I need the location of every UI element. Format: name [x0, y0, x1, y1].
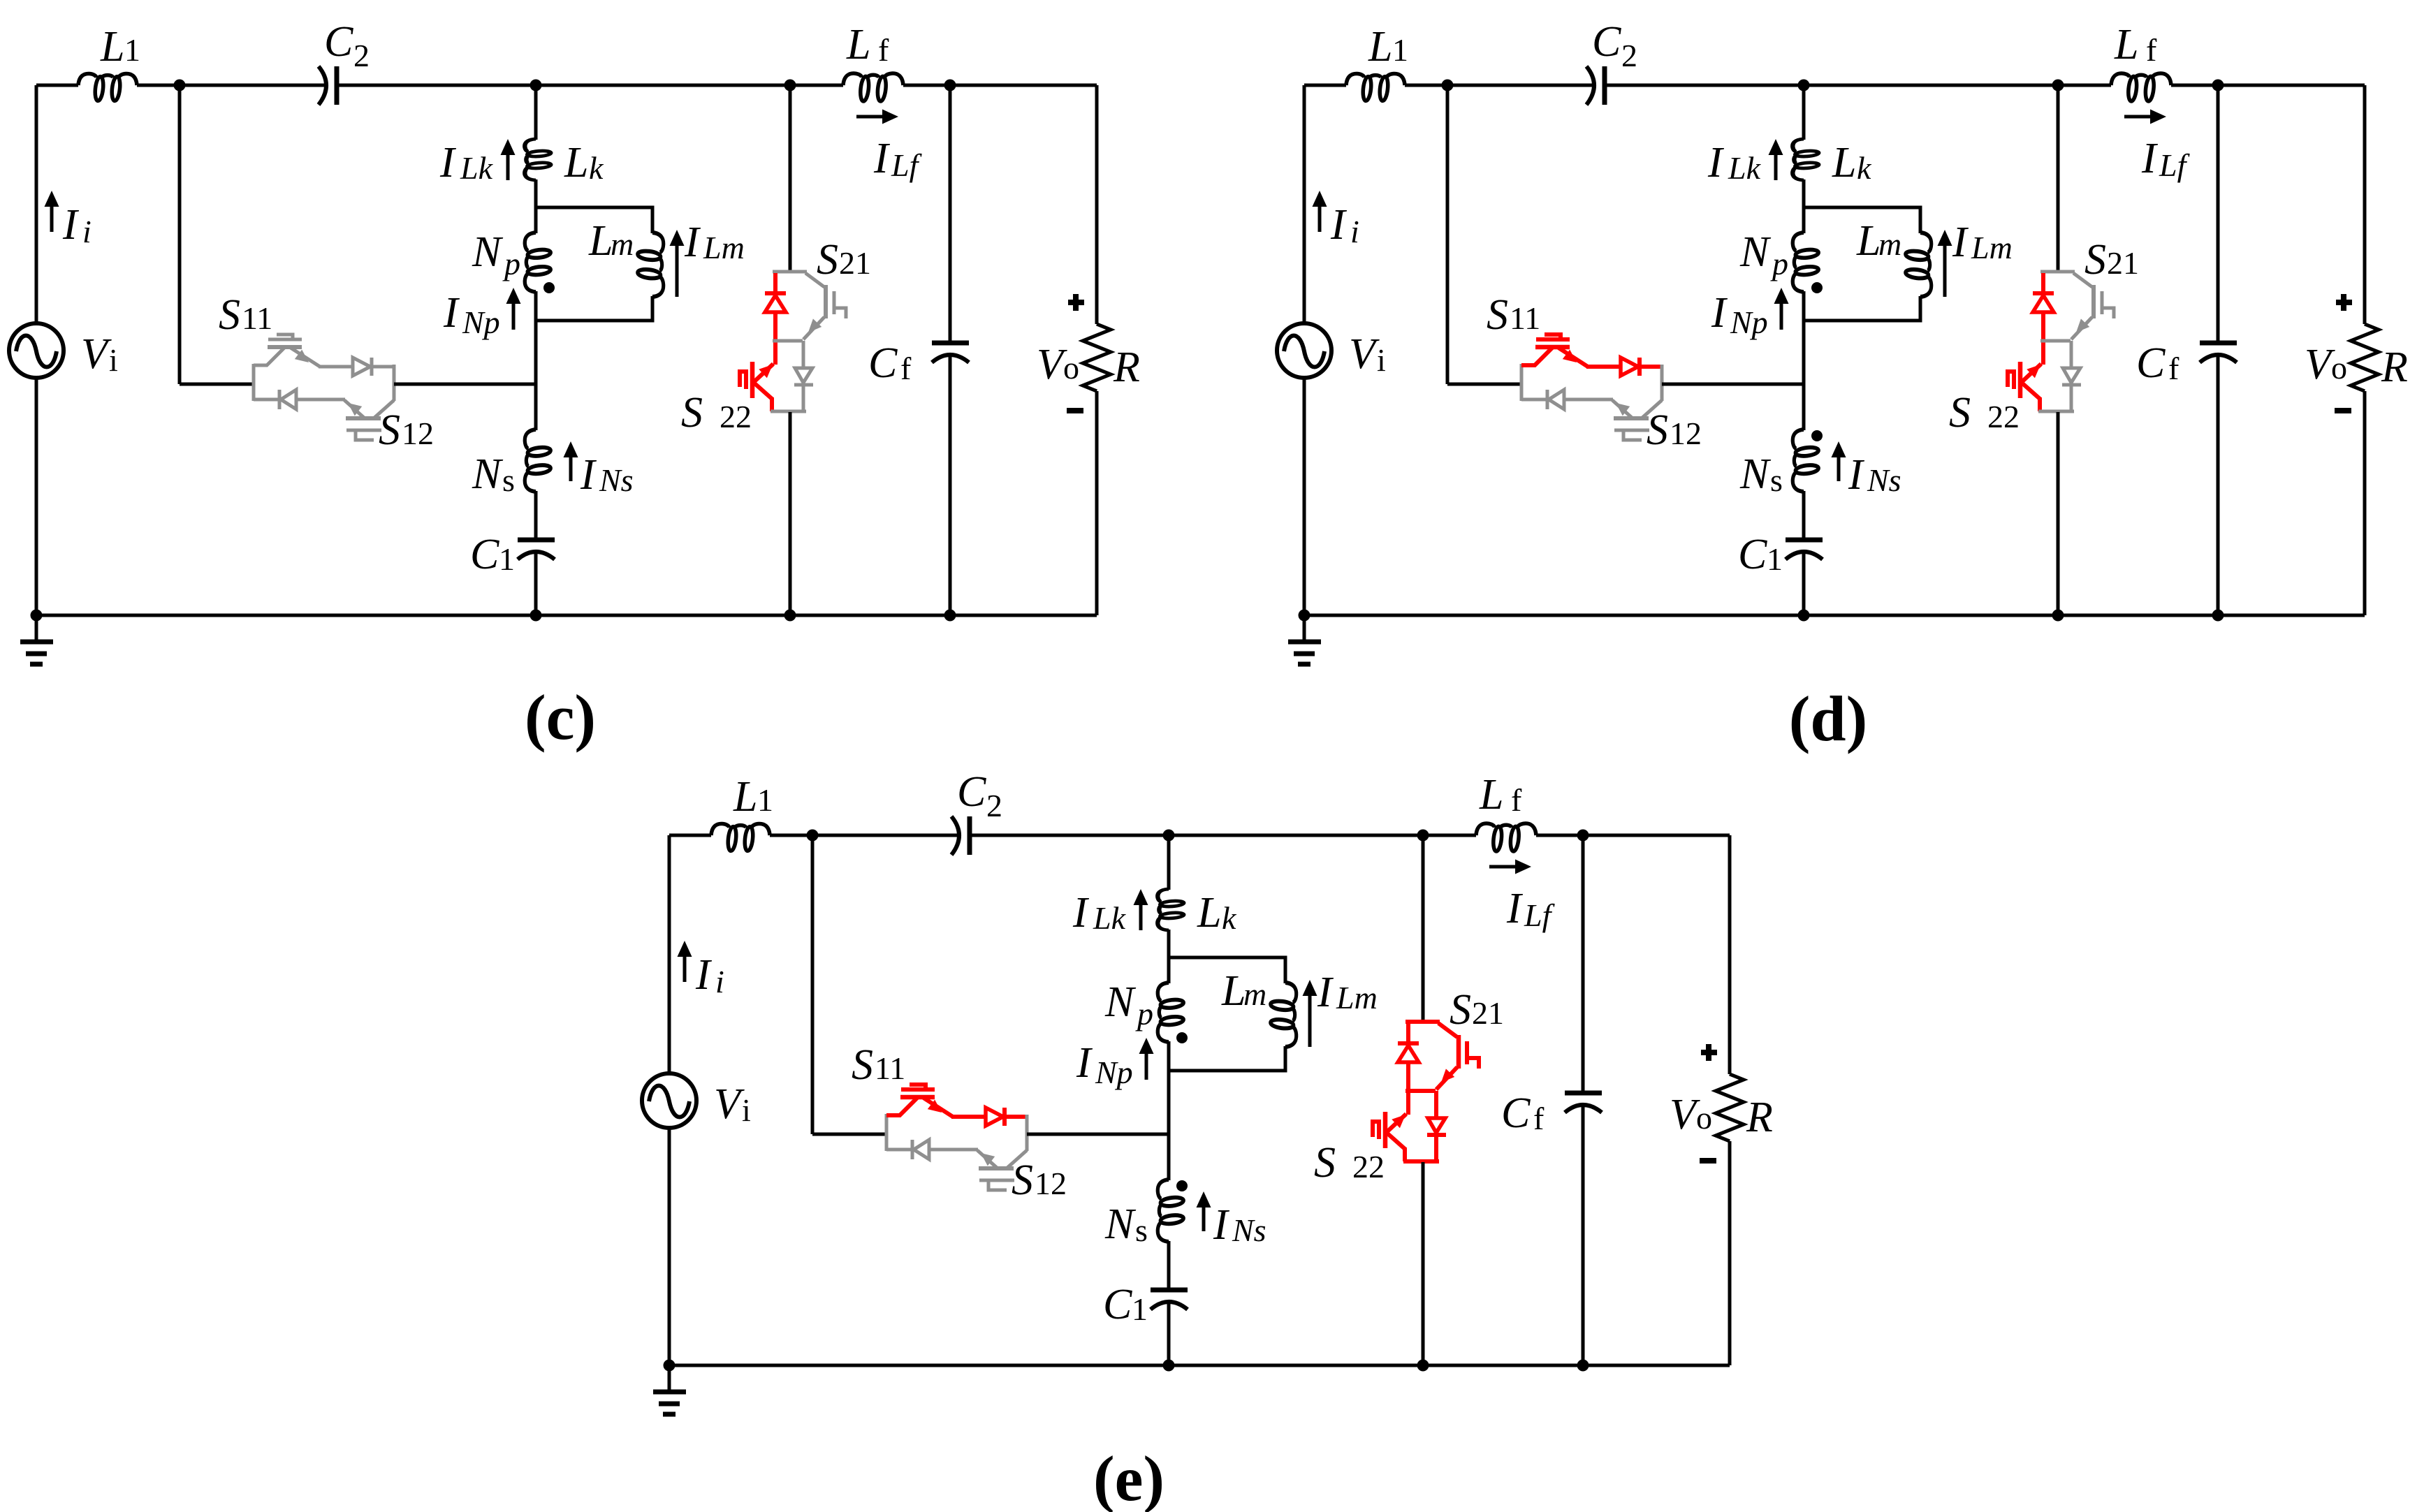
wire Cf branch upper (e)	[1582, 835, 1585, 1094]
svg-text:f: f	[2146, 32, 2157, 68]
svg-text:1: 1	[1392, 32, 1408, 68]
node L1-C2 junction (d)	[1442, 80, 1454, 91]
transistor S22 emitter (d)	[2021, 382, 2040, 399]
inductor Ns (e)	[1158, 1180, 1184, 1242]
svg-text:I: I	[1711, 289, 1728, 337]
node S21 top junction (e)	[1417, 830, 1429, 842]
arrow INp (e)	[1145, 1051, 1148, 1080]
wire S22 bottom bar (c)	[771, 410, 806, 413]
svg-text:22: 22	[1352, 1149, 1385, 1184]
svg-text:I: I	[1317, 969, 1334, 1016]
inductor Lk (d)	[1793, 139, 1819, 180]
transistor S22 gate (d)	[2012, 369, 2016, 389]
svg-text:m: m	[1878, 226, 1901, 262]
node transformer bottom junction (c)	[530, 610, 542, 622]
transistor S21 gate lead (d)	[2102, 308, 2114, 318]
svg-text:I: I	[580, 451, 597, 499]
transistor S11 body (c)	[268, 345, 302, 349]
capacitor C2 (c)	[319, 66, 326, 105]
transistor S22 gate (e)	[1377, 1120, 1381, 1139]
transistor S11 gate (c)	[268, 338, 302, 342]
svg-text:i: i	[715, 964, 724, 999]
wire S12 output (c)	[394, 383, 536, 386]
svg-text:I: I	[62, 201, 80, 249]
svg-text:Np: Np	[1730, 304, 1768, 340]
svg-text:C: C	[868, 339, 898, 387]
svg-text:1: 1	[499, 541, 515, 577]
svg-text:22: 22	[720, 399, 752, 434]
node Np polarity dot (e)	[1176, 1032, 1188, 1043]
svg-text:Lf: Lf	[1524, 897, 1556, 933]
wire top bus (d)	[1304, 84, 1346, 87]
transistor S22 body (e)	[1383, 1112, 1388, 1148]
wire D22-bottom (e)	[1434, 1136, 1438, 1161]
inductor Np (c)	[525, 233, 551, 292]
svg-text:o: o	[1063, 350, 1079, 386]
svg-text:I: I	[1072, 889, 1090, 937]
svg-text:1: 1	[124, 32, 140, 68]
inductor Lk (e)	[1158, 889, 1184, 930]
node transformer top junction (e)	[1163, 830, 1175, 842]
label minus (e)	[1700, 1158, 1716, 1164]
svg-text:2: 2	[353, 38, 370, 73]
svg-text:Np: Np	[1095, 1055, 1133, 1090]
transistor S22 gate (c)	[744, 369, 748, 389]
svg-text:C: C	[324, 18, 353, 66]
node Cf top junction (c)	[944, 80, 956, 91]
wire Lk-Np (e)	[1167, 930, 1171, 983]
transistor S22 gate lead (c)	[740, 372, 746, 387]
wire S22 bottom bar (e)	[1403, 1159, 1439, 1164]
arrow ILk (d)	[1774, 152, 1778, 180]
capacitor Cf (d)	[2200, 341, 2237, 346]
svg-text:Ns: Ns	[1232, 1212, 1266, 1248]
wire Lk-Np (c)	[534, 179, 538, 233]
diode D11 (d)	[1621, 358, 1638, 376]
svg-text:N: N	[1104, 1201, 1137, 1248]
svg-text:L: L	[1479, 771, 1503, 819]
node ground junction (e)	[664, 1360, 676, 1372]
svg-text:s: s	[502, 462, 515, 498]
svg-text:21: 21	[1472, 995, 1504, 1031]
wire D21 anode stub (c)	[773, 273, 777, 294]
svg-text:I: I	[873, 135, 891, 182]
arrow Ii (c)	[50, 204, 54, 232]
wire top bus Lf-R (e)	[1536, 834, 1730, 837]
svg-text:Np: Np	[462, 304, 500, 340]
transistor S21 gate (d)	[2101, 291, 2104, 314]
node Ns polarity dot (d)	[1811, 430, 1823, 441]
wire switch right vertical (e)	[1025, 1115, 1029, 1151]
svg-text:21: 21	[839, 245, 871, 281]
svg-text:p: p	[502, 246, 520, 281]
node L1-C2 junction (c)	[174, 80, 186, 91]
svg-text:m: m	[611, 226, 634, 262]
inductor Lf (d)	[2111, 73, 2171, 101]
arrow ILf (d)	[2124, 115, 2153, 119]
svg-text:I: I	[1330, 201, 1348, 249]
svg-text:I: I	[1076, 1039, 1093, 1087]
capacitor C2 (e)	[951, 816, 959, 855]
wire S11 input (c)	[180, 383, 254, 386]
svg-text:i: i	[742, 1092, 751, 1128]
svg-text:C: C	[1501, 1089, 1531, 1137]
svg-text:m: m	[1243, 976, 1266, 1012]
svg-text:p: p	[1770, 246, 1788, 281]
node Cf bottom junction (d)	[2212, 610, 2224, 622]
svg-text:i: i	[1350, 214, 1359, 249]
label minus (d)	[2335, 408, 2351, 413]
wire top bus Lf-R (c)	[903, 84, 1097, 87]
inductor Np (e)	[1158, 983, 1184, 1042]
node Cf bottom junction (e)	[1577, 1360, 1589, 1372]
arrow Ii (d)	[1318, 204, 1322, 232]
transistor S12 body (d)	[1614, 416, 1649, 420]
wire C2 branch vertical (d)	[1446, 85, 1450, 384]
transistor S12 emitter (c)	[344, 400, 364, 418]
wire C2 branch vertical (e)	[811, 835, 815, 1134]
diode D12 (d)	[1546, 390, 1549, 409]
transistor S12 gate lead (c)	[356, 431, 374, 440]
svg-text:S: S	[1314, 1139, 1336, 1187]
node S21 top junction (d)	[2052, 80, 2064, 91]
svg-text:f: f	[878, 32, 889, 68]
transistor S12 collector (c)	[374, 400, 394, 418]
diode D21 (c)	[765, 291, 786, 295]
svg-text:o: o	[2331, 350, 2347, 386]
transistor S22 gate lead (d)	[2008, 372, 2014, 387]
wire D12 in (e)	[886, 1148, 912, 1152]
transistor S21 collector (c)	[805, 273, 824, 287]
arrow INs (c)	[569, 455, 573, 481]
wire left vertical lower (e)	[668, 1127, 671, 1365]
inductor L1 (d)	[1346, 73, 1405, 101]
svg-text:V: V	[1349, 330, 1380, 378]
svg-text:f: f	[900, 351, 912, 386]
wire D21 anode stub (e)	[1406, 1023, 1410, 1044]
transistor S21 gate (e)	[1465, 1041, 1469, 1064]
diode D21 (e)	[1398, 1041, 1419, 1045]
svg-text:21: 21	[2107, 245, 2139, 281]
transistor S12 gate (c)	[346, 429, 381, 432]
source Vi (e)	[642, 1073, 696, 1128]
transistor S12 emitter (e)	[977, 1150, 997, 1168]
svg-text:L: L	[588, 217, 613, 265]
svg-text:S: S	[1647, 406, 1668, 454]
capacitor Cf (e)	[1565, 1091, 1602, 1096]
inductor Lf (e)	[1476, 823, 1536, 851]
svg-text:f: f	[1511, 782, 1522, 818]
wire Cf branch lower (c)	[949, 353, 952, 615]
wire Cf branch upper (c)	[949, 85, 952, 344]
transistor S11 collector (d)	[1534, 348, 1552, 366]
transistor S21 emitter (e)	[1436, 1067, 1457, 1089]
svg-text:L: L	[1197, 889, 1221, 937]
transistor S11 gate lead (d)	[1545, 335, 1561, 338]
wire switch left vertical (c)	[252, 364, 256, 401]
diode D12 (c)	[278, 390, 282, 409]
svg-text:S: S	[1012, 1157, 1033, 1204]
wire switch top-left stub (e)	[886, 1113, 900, 1117]
svg-text:Lm: Lm	[703, 230, 745, 265]
transistor S21 collector (e)	[1438, 1023, 1457, 1037]
wire left vertical lower (c)	[35, 377, 38, 615]
wire D21-S22 (c)	[773, 311, 777, 365]
wire S21 top bar (d)	[2040, 270, 2075, 274]
wire Ns-C1 (e)	[1167, 1241, 1171, 1288]
wire S21 branch lower (d)	[2057, 412, 2060, 615]
wire D12-S12 (e)	[929, 1148, 978, 1152]
wire top bus C2-Lf (c)	[339, 84, 843, 87]
svg-text:11: 11	[875, 1050, 905, 1086]
arrow ILf (e)	[1489, 865, 1518, 869]
wire S21 mid bar (e)	[1406, 1089, 1436, 1093]
wire D12 in (d)	[1521, 398, 1547, 402]
capacitor C1 (c)	[518, 538, 555, 543]
label plus (c)	[1068, 300, 1084, 305]
transistor S11 body (d)	[1535, 345, 1570, 350]
svg-text:I: I	[2141, 135, 2159, 182]
wire transformer top (e)	[1167, 835, 1171, 890]
svg-text:S: S	[852, 1041, 873, 1089]
node Np polarity dot (d)	[1811, 282, 1823, 293]
wire top bus C2-Lf (e)	[972, 834, 1476, 837]
wire Ns-C1 (c)	[534, 491, 538, 538]
wire D22-bottom (c)	[802, 386, 805, 411]
svg-text:S: S	[379, 406, 400, 454]
node S21 bottom junction (d)	[2052, 610, 2064, 622]
wire S12 output (e)	[1027, 1133, 1169, 1136]
transistor S21 emitter (c)	[803, 317, 824, 339]
ground (d)	[1303, 615, 1306, 641]
svg-text:Lk: Lk	[1093, 900, 1127, 936]
svg-text:i: i	[1377, 342, 1386, 378]
svg-text:N: N	[1739, 450, 1772, 498]
wire Cf branch lower (e)	[1582, 1103, 1585, 1365]
svg-text:p: p	[1135, 996, 1153, 1032]
wire Np-Ns (e)	[1167, 1041, 1171, 1180]
transistor S22 gate lead (e)	[1373, 1122, 1379, 1137]
svg-text:f: f	[2168, 351, 2180, 386]
node ground junction (c)	[31, 610, 43, 622]
inductor L1 (c)	[78, 73, 137, 101]
wire D11 out (e)	[1005, 1115, 1028, 1119]
wire D12 in (c)	[254, 398, 279, 402]
transistor S11 collector (e)	[899, 1098, 917, 1116]
wire C2 branch vertical (c)	[178, 85, 182, 384]
wire top bus L1-C2 (d)	[1405, 84, 1592, 87]
diode D22 lead (d)	[2070, 341, 2073, 369]
svg-text:11: 11	[1510, 300, 1540, 336]
transistor S12 collector (d)	[1642, 400, 1662, 418]
diode D22 lead (e)	[1434, 1091, 1438, 1119]
svg-text:I: I	[1848, 451, 1865, 499]
wire D11 out (d)	[1640, 365, 1663, 369]
transistor S21 body (c)	[824, 285, 828, 318]
svg-text:Ns: Ns	[1867, 462, 1901, 498]
node Cf top junction (d)	[2212, 80, 2224, 91]
node transformer bottom junction (e)	[1163, 1360, 1175, 1372]
wire Cf branch lower (d)	[2217, 353, 2220, 615]
svg-text:L: L	[1832, 139, 1856, 186]
transistor S11 body (e)	[900, 1095, 935, 1100]
transistor S22 collector (c)	[753, 364, 773, 383]
svg-text:I: I	[443, 289, 460, 337]
svg-text:N: N	[1739, 228, 1772, 276]
transistor S21 gate (c)	[833, 291, 836, 314]
svg-text:12: 12	[402, 416, 434, 451]
diode D11 (c)	[353, 358, 370, 376]
svg-text:N: N	[472, 450, 504, 498]
wire Np-Ns (c)	[534, 291, 538, 430]
wire S21 top bar (c)	[773, 270, 807, 274]
wire S21 branch upper (d)	[2057, 85, 2060, 271]
transistor S22 emitter (e)	[1386, 1132, 1405, 1149]
svg-text:12: 12	[1035, 1166, 1067, 1201]
source Vi (d)	[1277, 323, 1331, 378]
transistor S22 body (d)	[2018, 362, 2023, 398]
svg-text:k: k	[1857, 150, 1872, 186]
wire S21 branch upper (e)	[1422, 835, 1425, 1021]
svg-text:1: 1	[757, 782, 773, 818]
svg-text:Lm: Lm	[1971, 230, 2013, 265]
svg-text:f: f	[1533, 1101, 1545, 1136]
wire S12 output (d)	[1662, 383, 1804, 386]
wire D12-S12 (c)	[296, 398, 345, 402]
arrow Ii (e)	[683, 954, 687, 982]
svg-text:I: I	[1213, 1201, 1230, 1249]
inductor L1 (e)	[711, 823, 770, 851]
svg-text:C: C	[1738, 531, 1767, 578]
svg-text:L: L	[1221, 967, 1246, 1015]
inductor Np (d)	[1793, 233, 1819, 292]
wire D22-bottom (d)	[2070, 386, 2073, 411]
inductor Lf (c)	[843, 73, 903, 101]
node S21 bottom junction (c)	[784, 610, 796, 622]
svg-text:(d): (d)	[1789, 683, 1867, 754]
source Vi (c)	[9, 323, 64, 378]
label minus (c)	[1067, 408, 1083, 413]
wire top bus (c)	[36, 84, 78, 87]
arrow ILf (c)	[856, 115, 885, 119]
node transformer top junction (d)	[1798, 80, 1810, 91]
transistor S21 gate lead (c)	[834, 308, 846, 318]
svg-text:C: C	[1103, 1281, 1132, 1328]
svg-text:L: L	[846, 21, 870, 68]
svg-text:i: i	[109, 342, 118, 378]
wire switch right vertical (c)	[393, 365, 396, 401]
transistor S21 emitter (d)	[2071, 317, 2092, 339]
wire top bus (e)	[669, 834, 711, 837]
transistor S21 collector (d)	[2073, 273, 2092, 287]
svg-text:1: 1	[1132, 1291, 1148, 1327]
wire left vertical upper (e)	[668, 835, 671, 1074]
svg-text:C: C	[1592, 18, 1621, 66]
resistor R (e)	[1716, 1074, 1744, 1141]
inductor Lm (d)	[1905, 233, 1932, 297]
transistor S21 body (d)	[2091, 285, 2096, 318]
wire top bus Lf-R (d)	[2171, 84, 2365, 87]
transistor S12 gate lead (e)	[988, 1181, 1007, 1190]
svg-text:V: V	[81, 330, 112, 378]
capacitor Cf (c)	[932, 341, 969, 346]
wire transformer top (d)	[1802, 85, 1806, 140]
svg-text:s: s	[1135, 1212, 1148, 1248]
wire D21-S22 (d)	[2041, 311, 2045, 365]
svg-text:Lf: Lf	[2159, 147, 2191, 183]
svg-text:L: L	[1368, 23, 1392, 71]
node Cf bottom junction (c)	[944, 610, 956, 622]
wire D12-S12 (d)	[1564, 398, 1613, 402]
svg-text:C: C	[2136, 339, 2166, 387]
wire C1-bus (e)	[1167, 1302, 1171, 1365]
svg-text:L: L	[100, 23, 124, 71]
svg-text:C: C	[957, 768, 986, 816]
wire R branch upper (e)	[1728, 835, 1732, 1074]
svg-text:Lf: Lf	[891, 147, 923, 183]
wire C1-bus (d)	[1802, 552, 1806, 615]
wire top bus L1-C2 (c)	[137, 84, 324, 87]
svg-text:S: S	[2085, 236, 2106, 284]
ground (e)	[668, 1365, 671, 1391]
svg-text:L: L	[2114, 21, 2138, 68]
wire switch top-left stub (c)	[254, 364, 268, 367]
inductor Lm (c)	[637, 233, 664, 297]
transistor S11 collector (c)	[266, 348, 284, 366]
node Cf top junction (e)	[1577, 830, 1589, 842]
svg-text:L: L	[564, 139, 588, 186]
arrow INs (e)	[1202, 1205, 1206, 1231]
svg-text:k: k	[1222, 900, 1237, 936]
node Ns polarity dot (e)	[1176, 1180, 1188, 1191]
diode D11 (e)	[986, 1108, 1003, 1126]
transistor S22 collector (d)	[2021, 364, 2041, 383]
wire magnetizing loop (c)	[536, 207, 652, 321]
svg-text:I: I	[1707, 139, 1725, 186]
node Np polarity dot (c)	[543, 282, 555, 293]
wire left vertical upper (c)	[35, 85, 38, 324]
wire S21 top bar (e)	[1406, 1020, 1440, 1024]
transistor S22 body (c)	[750, 362, 755, 398]
wire R branch lower (e)	[1728, 1141, 1732, 1365]
wire S21 mid bar (d)	[2040, 339, 2071, 343]
svg-text:L: L	[733, 773, 757, 821]
transistor S12 gate lead (d)	[1623, 431, 1642, 440]
label plus (e)	[1701, 1050, 1717, 1055]
node S21 bottom junction (e)	[1417, 1360, 1429, 1372]
svg-text:k: k	[589, 150, 604, 186]
transistor S11 emitter (c)	[291, 348, 320, 367]
diode D22 (c)	[795, 368, 812, 383]
svg-text:Lk: Lk	[1728, 150, 1762, 186]
label plus (d)	[2336, 300, 2352, 305]
transistor S22 emitter (c)	[753, 382, 772, 399]
svg-text:22: 22	[1987, 399, 2020, 434]
svg-text:12: 12	[1670, 416, 1702, 451]
wire Cf branch upper (d)	[2217, 85, 2220, 344]
svg-text:S: S	[219, 291, 240, 339]
arrow ILk (c)	[506, 152, 510, 180]
svg-text:2: 2	[1621, 38, 1637, 73]
wire magnetizing loop (d)	[1804, 207, 1920, 321]
svg-text:N: N	[472, 228, 504, 276]
wire S11-D11 (d)	[1586, 365, 1621, 369]
svg-text:2: 2	[986, 788, 1002, 823]
transistor S11 gate lead (e)	[910, 1085, 926, 1088]
node ground junction (d)	[1299, 610, 1310, 622]
diode D22 (d)	[2063, 368, 2080, 383]
node S21 top junction (c)	[784, 80, 796, 91]
